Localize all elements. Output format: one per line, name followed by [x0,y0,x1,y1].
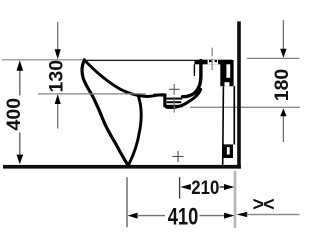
drain step bar 2 [167,101,182,103]
extension tick: 210 left [179,177,181,198]
wall socket box [223,144,233,158]
faucet hole gap [208,60,218,64]
label 130 [46,60,68,93]
faucet deck bar [194,60,232,64]
centerline: drain vertical [173,84,175,113]
dimension 410 left arrow [128,213,138,219]
label 400 [3,98,25,131]
drain weir flat bar [154,94,167,97]
node: extension bar below floor at wall [234,171,237,228]
dimension 410 right line [200,215,226,217]
trap outer return curve [167,90,201,108]
supply channel block [220,60,233,86]
dimension 210 line segment [220,186,225,188]
wall socket box slot [227,147,230,154]
floor drain cross vertical [177,151,179,162]
gap arrow at wall (points left) [237,212,248,217]
extension line: rim level left [2,59,83,61]
svg-text:400: 400 [3,98,25,131]
dimension 180 upper arrow (down) [282,20,284,50]
supply channel slot [226,64,230,78]
extension line: 410 left [126,177,128,227]
rim back slot edge line [194,64,195,76]
svg-text:><: >< [253,194,275,216]
dimension 130 lower arrow (up) [57,103,59,129]
bowl back inner J-curve [183,61,201,97]
extension line: 130 lower [38,93,146,95]
faucet hole mark left [209,60,212,62]
dimension 180 lower arrow (up) [282,116,284,143]
svg-text:130: 130 [46,60,68,93]
dimension 210 right arrow [224,184,234,190]
pedestal back thin line [222,86,225,165]
extension line: 180 upper [247,57,300,59]
bidet foot back line [129,96,142,165]
wall [237,21,241,168]
bidet rim top line [84,60,232,61]
dimension 400 lower arrow (down) [19,133,21,156]
supply channel notch [225,82,230,86]
dimension 400 upper arrow (up) [19,70,21,96]
dimension 410 right arrow [224,213,234,219]
gap line to right edge [247,214,300,216]
dimension 130 upper arrow (down) [57,22,59,50]
centerline: drain tick cross [169,88,180,90]
dimension 410 left line [137,215,165,217]
svg-text:410: 410 [168,204,199,231]
svg-text:210: 210 [191,177,219,199]
label 180 [271,69,293,102]
floor drain cross horizontal [172,156,183,158]
drain drop bar [163,94,166,108]
svg-text:180: 180 [271,69,293,102]
bidet bowl interior curve [86,61,164,96]
wire: drain outlet line to wall (also 180 lower extension) [190,106,300,108]
supply pipe thin line [233,86,235,144]
faucet hole mark right [215,60,218,62]
drain step bar 3 [165,105,183,108]
bidet front outer profile [82,60,128,165]
centerline: faucet hole [211,48,213,70]
drain step bar 1 [166,98,182,100]
floor [3,165,241,169]
dimension 210 left arrow [180,184,190,190]
